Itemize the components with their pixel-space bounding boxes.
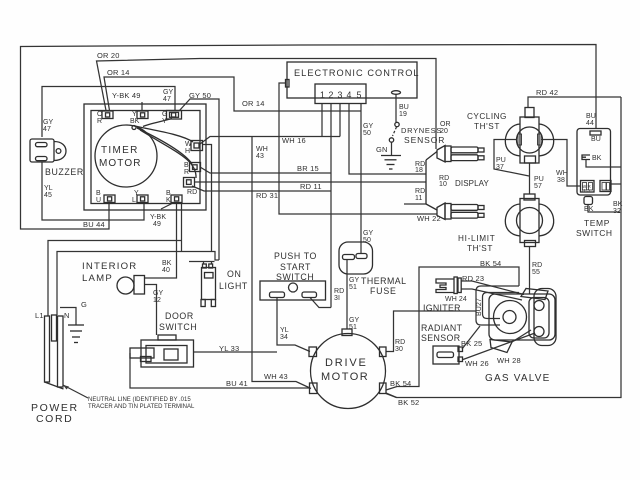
svg-text:LAMP: LAMP	[82, 273, 113, 284]
power ground symbol	[68, 325, 84, 343]
svg-text:GY: GY	[349, 317, 360, 324]
wire PU57 cycling to hi-limit	[529, 163, 531, 194]
svg-text:WH 22: WH 22	[417, 214, 441, 223]
svg-text:DOOR: DOOR	[165, 311, 194, 321]
svg-text:NEUTRAL LINE (IDENTIFIED BY .0: NEUTRAL LINE (IDENTIFIED BY .015	[88, 397, 191, 403]
svg-text:1: 1	[320, 90, 325, 100]
timer terminal BR	[190, 163, 201, 172]
wire BU44 timer-to-temp-switch via outer border	[21, 45, 597, 230]
buzzer	[30, 139, 66, 162]
svg-text:18: 18	[415, 167, 423, 174]
svg-text:RD: RD	[395, 339, 405, 346]
svg-text:INTERIOR: INTERIOR	[82, 261, 137, 272]
wire Y-BK49 callout at timer bottom	[161, 203, 173, 209]
svg-text:RD: RD	[334, 288, 344, 295]
wire control terminal 2 to RD31	[330, 104, 332, 308]
svg-text:2: 2	[329, 90, 334, 100]
svg-text:WH 28: WH 28	[497, 356, 521, 365]
svg-text:OR: OR	[440, 121, 451, 128]
wire RD55 hi-limit to gas valve	[529, 246, 531, 294]
svg-text:WH: WH	[256, 146, 268, 153]
svg-text:B: B	[96, 190, 101, 197]
thermal fuse	[339, 242, 373, 274]
wire temp-switch BK loop	[586, 160, 621, 168]
svg-text:R: R	[184, 169, 189, 176]
svg-text:50: 50	[363, 237, 371, 244]
wire WH22 control left terminal to display	[279, 83, 437, 214]
wire GY50 control terminal 5 to thermal fuse	[360, 104, 362, 254]
svg-text:RD: RD	[415, 188, 425, 195]
wire lamp feed drop	[181, 203, 183, 252]
wire WH38 cycling right to temp switch	[542, 140, 581, 187]
wire WH28 valve flange diagonal	[512, 330, 531, 342]
svg-text:B: B	[166, 190, 171, 197]
svg-text:YL 33: YL 33	[219, 344, 239, 353]
wire Y-BK49 stub at timer top	[141, 102, 143, 111]
svg-text:Y: Y	[132, 111, 137, 118]
svg-text:37: 37	[496, 164, 504, 171]
svg-text:50: 50	[363, 130, 371, 137]
cycling thermostat	[505, 108, 553, 164]
svg-text:BK: BK	[162, 260, 172, 267]
svg-text:10: 10	[439, 181, 447, 188]
svg-text:MOTOR: MOTOR	[99, 158, 142, 169]
wire BR15 timer-BR to control terminal 2	[200, 167, 331, 173]
wire WH24 igniter lower to gas valve	[461, 289, 522, 300]
svg-text:32: 32	[613, 208, 621, 215]
svg-text:G: G	[81, 300, 87, 309]
display connector top	[437, 146, 484, 163]
svg-text:OR 14: OR 14	[107, 68, 130, 77]
svg-text:GY: GY	[43, 119, 54, 126]
push to start switch	[260, 281, 326, 300]
svg-text:12: 12	[153, 297, 161, 304]
wire WH26 radiant sensor to valve	[463, 333, 535, 360]
svg-text:BK 54: BK 54	[390, 379, 411, 388]
timer motor block	[84, 104, 206, 210]
svg-text:TRACER AND TIN PLATED TERMINAL: TRACER AND TIN PLATED TERMINAL	[88, 404, 195, 410]
wire temp-switch RD-DU stub	[611, 183, 621, 185]
svg-text:CYCLING: CYCLING	[467, 112, 507, 121]
wire BU27 loop inner	[483, 293, 520, 319]
svg-text:34: 34	[280, 334, 288, 341]
svg-text:G: G	[162, 111, 168, 118]
door switch	[130, 335, 194, 367]
svg-text:BK 25: BK 25	[461, 339, 482, 348]
svg-text:44: 44	[586, 120, 594, 127]
svg-text:WH 43: WH 43	[264, 372, 288, 381]
svg-text:PU: PU	[534, 176, 544, 183]
svg-text:YL: YL	[280, 327, 289, 334]
svg-text:B: B	[184, 162, 189, 169]
on light	[201, 264, 216, 307]
wire OR14 timer-R to electronic control	[104, 77, 361, 111]
svg-text:DISPLAY: DISPLAY	[455, 179, 489, 188]
temp switch box	[577, 129, 611, 205]
svg-text:11: 11	[415, 195, 422, 202]
svg-text:BK 52: BK 52	[398, 398, 419, 407]
svg-text:RD: RD	[532, 262, 542, 269]
wire GY50 timer-G rightward down to N line	[179, 99, 219, 260]
drive motor	[309, 329, 386, 409]
wire PU37 cycling left	[494, 140, 529, 177]
svg-text:49: 49	[153, 221, 161, 228]
svg-text:PU: PU	[496, 157, 506, 164]
svg-text:GY: GY	[349, 277, 360, 284]
wire RD31 lower run into push-to-start switch	[310, 298, 331, 308]
svg-text:ELECTRONIC CONTROL: ELECTRONIC CONTROL	[294, 68, 420, 78]
svg-text:Y-BK 49: Y-BK 49	[112, 91, 141, 100]
wire GY12 interior lamp to door switch	[145, 285, 157, 336]
svg-text:SWITCH: SWITCH	[576, 228, 613, 238]
svg-text:BU 44: BU 44	[83, 220, 105, 229]
wire on-light left tab riser	[203, 262, 205, 265]
wire RD23 igniter to gas valve	[461, 281, 524, 295]
svg-text:45: 45	[44, 192, 52, 199]
svg-text:START: START	[280, 262, 311, 272]
timer terminal BK top	[137, 111, 148, 119]
svg-text:GN: GN	[376, 145, 388, 154]
svg-text:W: W	[185, 141, 192, 148]
timer terminal WH	[191, 141, 203, 151]
svg-text:38: 38	[557, 177, 565, 184]
wire GY47 buzzer to timer-G	[42, 87, 175, 138]
wire right riser RD42 BK32	[386, 97, 621, 398]
wire N neutral line	[57, 252, 219, 316]
svg-text:L: L	[132, 197, 136, 204]
svg-text:40: 40	[162, 267, 170, 274]
wire dryness sensor switch arm dashed	[393, 127, 397, 136]
svg-text:HI-LIMIT: HI-LIMIT	[458, 234, 495, 243]
svg-text:TH'ST: TH'ST	[467, 244, 493, 253]
svg-text:BU: BU	[399, 104, 409, 111]
wire RD11 RD10 timer-RD to display	[194, 181, 426, 183]
svg-text:BU 41: BU 41	[226, 379, 248, 388]
wire L1 power line	[48, 241, 182, 317]
svg-text:OR 20: OR 20	[97, 51, 120, 60]
svg-text:19: 19	[399, 111, 407, 118]
svg-text:TEMP: TEMP	[584, 218, 610, 228]
svg-text:BK: BK	[613, 201, 623, 208]
svg-text:RD 23: RD 23	[462, 274, 484, 283]
interior lamp	[117, 276, 145, 295]
svg-text:30: 30	[395, 346, 403, 353]
svg-text:SENSOR: SENSOR	[404, 135, 445, 145]
svg-text:51: 51	[349, 284, 357, 291]
svg-text:RADIANT: RADIANT	[421, 323, 463, 333]
svg-text:TH'ST: TH'ST	[474, 122, 500, 131]
svg-text:55: 55	[532, 269, 540, 276]
svg-text:WH 26: WH 26	[465, 359, 489, 368]
svg-text:GY: GY	[153, 290, 164, 297]
wire OR20 timer-R to display	[97, 59, 437, 150]
wire BU19 control to dryness sensor	[395, 95, 397, 123]
svg-text:PUSH TO: PUSH TO	[274, 251, 317, 261]
svg-text:47: 47	[43, 126, 51, 133]
wire BU41 door switch to drive motor	[130, 353, 310, 388]
svg-text:SWITCH: SWITCH	[159, 322, 197, 332]
svg-text:CORD: CORD	[36, 413, 73, 425]
wire YL45 buzzer to timer-LB	[42, 162, 144, 220]
svg-text:THERMAL: THERMAL	[361, 276, 407, 286]
svg-text:BR 15: BR 15	[297, 164, 319, 173]
svg-text:Y: Y	[134, 190, 139, 197]
wire BK40 timer-K to interior lamp	[145, 203, 177, 279]
svg-text:BUZZER: BUZZER	[45, 167, 84, 177]
wire YL34 push-to-start to drive motor	[277, 298, 310, 352]
wire BU27 loop outer	[476, 286, 519, 325]
display connector bottom	[437, 203, 484, 220]
svg-text:SWITCH: SWITCH	[276, 272, 314, 282]
wire RD11 display stub	[404, 203, 426, 205]
wire control terminal 3 drop	[339, 104, 341, 137]
svg-text:WH 24: WH 24	[445, 296, 467, 303]
wire dryness sensor to ground	[391, 143, 393, 156]
display fan-in bracket	[426, 152, 437, 211]
svg-text:IGNITER: IGNITER	[423, 303, 461, 313]
wire on-light right tab riser	[211, 262, 213, 265]
wire on-light bracket	[189, 261, 215, 263]
svg-text:BK: BK	[130, 118, 140, 125]
svg-text:DRYNESS: DRYNESS	[401, 126, 442, 135]
ground GN	[381, 156, 401, 170]
svg-text:Y: Y	[162, 118, 167, 125]
svg-text:L1: L1	[35, 311, 44, 320]
svg-text:K: K	[166, 197, 171, 204]
svg-text:O: O	[97, 111, 103, 118]
wire timer WH to L1 drop	[202, 145, 212, 252]
svg-text:20: 20	[440, 128, 448, 135]
svg-text:WH: WH	[556, 170, 568, 177]
svg-text:BK: BK	[592, 155, 602, 162]
svg-text:RD 11: RD 11	[300, 182, 322, 191]
timer terminal BU	[104, 195, 115, 203]
svg-text:RD: RD	[187, 189, 197, 196]
timer terminal RD	[184, 178, 195, 188]
svg-text:47: 47	[163, 96, 171, 103]
svg-text:5: 5	[357, 90, 362, 100]
svg-text:GY: GY	[163, 89, 174, 96]
svg-text:YL: YL	[44, 185, 53, 192]
svg-text:RD 42: RD 42	[536, 88, 558, 97]
svg-text:GY: GY	[363, 123, 374, 130]
svg-text:H D: H D	[582, 188, 591, 193]
wire RD42 cycling to right riser	[528, 97, 621, 108]
wire WH16 timer-WH to control terminal 3	[200, 137, 340, 145]
power cord prongs	[45, 315, 64, 389]
wire RD30 drive motor to gas valve	[386, 311, 476, 352]
svg-text:MOTOR: MOTOR	[321, 371, 369, 383]
svg-text:BK 54: BK 54	[480, 259, 501, 268]
svg-text:OR 14: OR 14	[242, 99, 265, 108]
svg-text:R: R	[97, 118, 102, 125]
timer terminal LB	[137, 195, 148, 203]
svg-text:GY 50: GY 50	[189, 91, 211, 100]
svg-text:ON: ON	[227, 269, 241, 279]
svg-text:U: U	[96, 197, 101, 204]
gas valve	[489, 289, 556, 353]
hi-limit thermostat	[505, 194, 553, 247]
svg-text:4: 4	[347, 90, 352, 100]
svg-text:43: 43	[256, 153, 264, 160]
svg-text:BU: BU	[586, 113, 596, 120]
wire control terminal 1 drop	[321, 104, 323, 137]
svg-text:H: H	[185, 148, 190, 155]
wire BK52 drive motor lower	[386, 394, 397, 398]
wire BK54 drive motor to gas valve	[386, 267, 519, 390]
svg-text:SENSOR: SENSOR	[421, 333, 461, 343]
timer terminal R	[102, 111, 113, 119]
wire GY51 thermal fuse to drive motor	[346, 260, 348, 329]
svg-text:TIMER: TIMER	[101, 145, 139, 156]
dryness sensor contacts	[389, 122, 399, 142]
wire neutral note arrow	[63, 385, 88, 398]
svg-text:3: 3	[338, 90, 343, 100]
igniter	[436, 277, 461, 294]
svg-text:Y-BK: Y-BK	[150, 214, 166, 221]
svg-text:BU: BU	[591, 136, 601, 143]
svg-text:BU27: BU27	[476, 298, 483, 316]
radiant sensor	[433, 346, 463, 364]
svg-text:GY: GY	[363, 230, 374, 237]
wire YL33 door switch to drive motor	[194, 351, 278, 353]
wire RD31 timer-RD to push-to-start	[192, 186, 331, 191]
wire WH43 branch to drive motor	[252, 137, 311, 389]
svg-text:51: 51	[349, 324, 357, 331]
timer terminal K	[171, 195, 182, 203]
timer terminal G	[167, 111, 182, 120]
wire G ground lead	[60, 308, 76, 326]
svg-text:GAS VALVE: GAS VALVE	[485, 373, 550, 384]
svg-text:FUSE: FUSE	[370, 286, 397, 296]
svg-text:3I: 3I	[334, 295, 340, 302]
svg-text:RD 31: RD 31	[256, 191, 278, 200]
svg-text:57: 57	[534, 183, 542, 190]
wire RD18 control terminal 4 to display	[349, 104, 426, 174]
svg-text:N: N	[64, 311, 70, 320]
svg-text:DRIVE: DRIVE	[325, 357, 368, 369]
electronic control box	[286, 62, 418, 104]
svg-text:LIGHT: LIGHT	[219, 281, 248, 291]
wire temp-switch D tab drop	[588, 205, 620, 212]
svg-text:BK: BK	[584, 206, 594, 213]
wire BK25 radiant sensor to valve	[462, 326, 480, 349]
svg-text:WH 16: WH 16	[282, 136, 306, 145]
